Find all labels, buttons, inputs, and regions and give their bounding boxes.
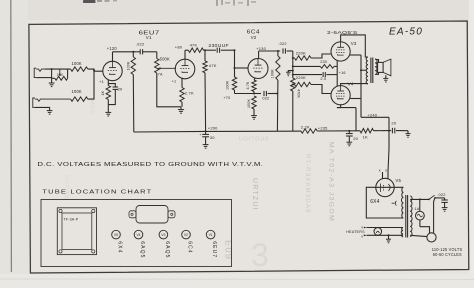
transformer T2 heater winding [401,228,403,237]
label 100K top [72,61,82,66]
label 50-60 CYCLES [433,252,462,257]
node +200 [205,130,207,132]
svg-text:2.2K: 2.2K [301,124,310,129]
svg-text:D.C. VOLTAGES MEASURED TO: D.C. VOLTAGES MEASURED TO GROUND WITH V.… [37,162,263,168]
wire rail to rectifier node [374,130,390,132]
svg-text:+120: +120 [107,46,118,51]
wire +240 feed [361,117,389,130]
label 2-6AQ5'S [327,30,358,35]
resistor R10 100K grid V2 [232,50,236,93]
svg-text:1K: 1K [363,134,368,139]
node fuse tap [419,198,421,200]
power transformer TF-3A-P outline [57,208,96,255]
wire switch to plug [434,198,435,233]
label V2 [251,35,257,40]
resistor R14 470K in bus [291,78,295,91]
node feedback [276,93,278,95]
ground below C7 [203,145,209,149]
tube location chart box [41,200,232,267]
label 6X4 on chart [116,241,122,253]
label 230 [320,60,327,64]
svg-text:230UUF: 230UUF [208,43,229,48]
resistor R19 1K in rail [360,129,374,133]
capacitor C4 .022 feedback [254,91,277,96]
paper crease line near bottom [0,278,474,281]
ground below C8 [346,142,352,146]
svg-text:+1: +1 [172,79,177,83]
label 6C4 [247,30,260,36]
potentiometer R6 500K [155,52,176,73]
wire transformer center tap [361,69,366,71]
label 2.2K [301,124,310,129]
svg-text:+240: +240 [367,112,377,117]
svg-text:47K: 47K [209,63,217,68]
screen bus wire [360,55,362,117]
svg-text:V4: V4 [136,233,140,237]
svg-text:.022: .022 [278,41,286,46]
capacitor C1 .022 coupling [136,49,157,54]
label 022 C4 [262,96,269,100]
svg-text:100K: 100K [247,99,251,108]
label V5 [395,178,401,183]
wire splitter bus [292,51,294,131]
pilot lamp PL1 [374,228,382,236]
bleed-through large numeral [251,237,269,273]
wire V1a plate to +120 rail [113,52,137,62]
transformer T2 HV winding [402,187,404,218]
resistor R3 100K (bottom input) [71,97,88,101]
tube socket V2 on chart [182,230,191,239]
svg-text:1K: 1K [101,90,105,95]
label +130 [256,46,266,51]
svg-text:TF-3A-P: TF-3A-P [63,217,78,221]
ground stub on bus [286,71,293,76]
label 1M [57,72,63,77]
input jack J2 (bottom) [33,98,71,107]
wire bias bus [235,93,254,95]
transformer T1 secondary winding [375,59,377,75]
bleed-through text MODEL EA-50T AMPLIFIER [328,142,335,222]
svg-text:6AQ5: 6AQ5 [139,241,145,258]
label 6AQ5 on chart [139,241,145,258]
label HEATERS [346,230,365,234]
ground below C10 [442,208,448,212]
resistor R15 220K (top) [293,56,311,60]
svg-text:220K: 220K [296,75,306,80]
capacitor C3 230UUF [205,48,235,53]
svg-text:100K: 100K [72,61,82,66]
svg-text:RT-R3XAM3DA9: RT-R3XAM3DA9 [304,154,310,214]
svg-text:100K: 100K [226,80,230,90]
ground below J2 [47,111,53,115]
ground below speaker [383,75,388,82]
svg-text:6X4: 6X4 [116,241,122,253]
label 20 C2 [118,87,123,92]
heater x arrows [361,226,366,239]
ground on heater line [386,235,391,243]
svg-text:V2: V2 [251,35,257,40]
tube V2 (6C4) [248,59,268,79]
label 4.7K vertical [246,81,250,89]
wire V4 plate to transformer [341,84,368,86]
label 100K vertical R10 [226,80,230,90]
svg-text:6X4: 6X4 [370,199,380,205]
tube V1b (6EU7 second half) [175,59,195,79]
node bus top [292,57,294,59]
transformer T2 core [406,195,408,238]
potentiometer R1 1M [52,69,68,80]
label .022 C1 [136,41,145,46]
speaker SP1 [378,59,391,76]
node A junction [51,68,53,70]
wire node A to ground [51,69,53,83]
label +120 [107,46,118,51]
label +16 [339,71,346,75]
wire to V3 grid [311,54,332,58]
capacitor C2 20 cathode bypass [108,84,118,105]
label +1 V1b [172,79,177,83]
wire heater bottom lead [367,234,404,236]
svg-text:+200: +200 [208,126,218,131]
switch SW1 [428,195,436,200]
bleed-through text INSTRUCTIONS [251,178,258,211]
tube socket V5 on chart [112,230,121,239]
svg-text:EA-50: EA-50 [389,27,423,38]
svg-text:V2: V2 [184,233,188,237]
AC plug P1 [427,233,436,242]
capacitor C9 20 to ground [389,128,408,134]
node bus gnd stub [292,70,294,72]
svg-text:6EU7: 6EU7 [211,241,217,258]
label V3 [351,41,357,46]
svg-text:1M: 1M [57,72,63,77]
svg-text:V1: V1 [146,35,152,40]
node bus 230 stub [292,65,294,67]
node bus bottom stub [292,84,294,86]
label TF-3A-P [63,217,78,221]
svg-text:500K: 500K [160,57,170,62]
svg-text:7A: 7A [158,72,163,76]
heater connection marks x x [379,167,388,172]
bleed-through faint column left [89,100,95,115]
resistor R5 1K cathode V1a [106,84,110,105]
wire 500K bottom to ground bus [157,73,181,107]
wire V3 screen [350,54,361,56]
svg-text:47K: 47K [190,42,198,47]
svg-text:MOO: MOO [89,100,95,115]
svg-text:6AQ5: 6AQ5 [164,241,170,258]
svg-text:x: x [385,167,387,172]
node V2 plate load [277,50,279,52]
handwritten EA-50 title [389,27,423,38]
ground below V1a cathode [105,105,111,116]
wire B+ down to rectifier [388,131,389,172]
svg-text:6C4: 6C4 [186,241,192,253]
svg-text:x: x [361,226,363,230]
label 230UUF [208,43,229,48]
node heater ground [388,234,390,236]
svg-text:HEATERS: HEATERS [346,230,365,234]
ground below R13 [251,116,257,120]
node V2 grid leak [234,49,236,51]
resistor R8 47K to B+ rail [203,50,207,131]
node plate V1a load [132,51,134,53]
tube V1a (6EU7 first half) [103,61,122,80]
svg-text:+16: +16 [339,71,346,75]
ground below V1b cathode [178,107,184,113]
resistor R12 4.7K cathode V2 [252,80,256,94]
label 1A [414,207,419,211]
wire V1a cathode [107,80,109,84]
svg-text:100K: 100K [127,61,131,70]
tube location chart title [42,190,152,196]
label 100K vertical R4 [127,61,131,70]
resistor R9 2.7K cathode V1b [180,88,184,107]
svg-text:V3: V3 [351,41,357,46]
wire V2 cathode [254,78,255,80]
input jack J1 (top) [34,68,45,77]
ground right of C9 [406,131,411,138]
svg-text:220K: 220K [296,51,306,56]
svg-text:OOTIAW: OOTIAW [63,175,69,201]
cut-off text remnants at top edge [83,0,256,6]
capacitor C10 .022 line [441,198,447,208]
label V1 [146,35,152,40]
label 470K vertical [297,89,301,98]
node CT tap [360,69,362,71]
svg-text:3: 3 [251,237,269,273]
resistor R2 100K (top input) [71,67,88,71]
bleed-through horizontal strip below rail [239,137,270,143]
transformer T1 primary winding [366,57,368,84]
wire secondary to speaker [375,60,378,75]
label 500K [160,57,170,62]
svg-text:x: x [379,167,381,172]
svg-text:MA T02-A3 J3GOM: MA T02-A3 J3GOM [328,142,335,222]
svg-text:1A: 1A [414,207,419,211]
wire V3 cathode bus [336,61,338,87]
node V2 grid [234,67,236,69]
label 20 C8 [353,136,358,141]
svg-text:x: x [361,235,363,239]
svg-text:20: 20 [118,87,123,92]
label 1K vertical [101,90,105,95]
svg-text:+80: +80 [175,45,183,50]
transformer T2 primary winding [410,196,412,237]
label 110-125 VOLTS [432,247,463,252]
transformer T1 core [371,58,373,84]
label +235 [318,125,328,130]
capacitor C8 20 electrolytic [346,131,353,142]
label 47K R8 [209,63,217,68]
wire J2 sleeve to ground [35,107,50,110]
fuse F1 1A [416,199,425,226]
wire R3 up to grid node [88,71,94,99]
tube socket V4 on chart [134,230,143,239]
node decouple [204,49,206,51]
label 20 C9 [391,121,396,126]
label +80 [175,45,183,50]
label 100K vertical R11 [271,69,275,79]
tube socket V1 on chart [206,230,215,239]
svg-text:022: 022 [262,96,269,100]
label 47K R7 [190,42,198,47]
label 2.7K [185,91,194,96]
label V4 [348,81,354,86]
resistor R13 100K to ground [252,96,256,116]
svg-text:+70: +70 [223,96,230,100]
svg-text:.022: .022 [437,192,445,197]
node bus cap stub [292,74,294,76]
bleed-through faint column lower-left [63,175,69,201]
label +240 [367,112,377,117]
wire rail mid [317,130,360,132]
resistor R18 2.2K in rail [293,129,317,133]
node rail cap [348,130,350,132]
wire fuse to plug [420,227,430,234]
node rectifier output [388,130,390,132]
svg-text:2-6AQ5'S: 2-6AQ5'S [327,30,358,35]
plate arrow to transformer [392,201,397,206]
capacitor C7 30 electrolytic [202,131,209,144]
label 1K R19 [363,134,368,139]
svg-text:20: 20 [353,136,358,141]
wire primary bottom to plug [410,235,427,236]
wire R2 to grid node [88,69,103,71]
capacitor C5 .022 coupling V2 [283,48,293,53]
tube V3 (6AQ5) [331,42,350,61]
svg-text:20: 20 [391,121,396,126]
wire V1b cathode [181,78,183,87]
resistor R7 47K [188,48,203,52]
label 7A [158,72,163,76]
svg-text:2.0: 2.0 [320,77,326,81]
wire to V4 grid [311,85,331,94]
svg-text:UOITOUB: UOITOUB [239,137,270,143]
svg-text:+1: +1 [99,80,104,84]
label .022 C5 [278,41,286,46]
label 2.0 [320,77,326,81]
label 220K bottom [296,75,306,80]
svg-text:V3: V3 [161,233,165,237]
wire switch to line cap [435,197,445,199]
svg-text:+130: +130 [256,46,266,51]
wire V1b plate [185,50,188,59]
tube socket V3 on chart [159,230,168,239]
svg-text:4.7K: 4.7K [246,81,250,89]
label 6EU7 [139,31,160,37]
wire V2 plate [259,51,281,59]
svg-text:30: 30 [210,135,215,140]
filter can on chart [129,206,175,224]
label 6C4 on chart [186,241,192,253]
capacitor C6 2.0 [293,72,337,77]
svg-text:V5: V5 [114,233,118,237]
label 100K vertical R13 [247,99,251,108]
label 30 C7 [210,135,215,140]
svg-text:470K: 470K [297,89,301,98]
resistor R17 220K (bottom) [293,82,311,86]
svg-text:100K: 100K [72,89,82,94]
label 6EU7 on chart [211,241,217,258]
wire V4 screen [350,98,361,100]
wire C3 to V2 grid [235,67,249,69]
resistor R16 230 cathode [293,65,337,69]
svg-text:URTZUI: URTZUI [251,178,258,211]
tube V5 (6X4 rectifier) [376,178,394,196]
wire J1 tip to node A [45,68,71,70]
svg-text:TUBE LOCATION CHART: TUBE LOCATION CHART [42,190,152,196]
svg-text:100K: 100K [271,69,275,79]
tube V4 (6AQ5) [331,86,350,105]
node grid V1a [93,69,95,71]
resistor R4 100K plate load V1a [131,52,135,132]
label +70 [223,96,230,100]
resistor R11 100K plate load V2 [276,51,280,131]
svg-text:2.7K: 2.7K [185,91,194,96]
svg-text:50-60 CYCLES: 50-60 CYCLES [433,252,462,257]
svg-text:V5: V5 [395,178,401,183]
node V2 bias junction [253,93,255,95]
bleed-through text PACEMAKER [304,154,310,214]
svg-text:230: 230 [320,60,327,64]
DC voltages note [37,162,263,168]
wire V4 cathode [337,105,356,131]
rectifier filament leads [383,172,389,179]
label .022 C10 [437,192,445,197]
bleed-through text 603 [223,240,234,260]
label 6AQ5 on chart [164,241,170,258]
label 100K bottom [72,89,82,94]
wire V3 plate to transformer [341,35,368,57]
wire primary top [410,198,429,200]
B+ rail wire [134,130,293,133]
label +200 [208,126,218,131]
label +1 V1a [99,80,104,84]
svg-text:+: + [199,133,201,137]
svg-text:.022: .022 [136,41,145,46]
label 6X4 [370,199,380,205]
label 220K top [296,51,306,56]
ground below 1M pot [49,83,55,87]
page binding edge line [10,0,13,272]
svg-text:V1: V1 [209,233,213,237]
svg-text:+235: +235 [318,125,328,130]
label plus C7 [199,133,201,137]
wire heater top lead [367,227,404,229]
plate loop box of V5 [366,187,403,218]
wire J1 sleeve to node A leg [36,77,51,79]
